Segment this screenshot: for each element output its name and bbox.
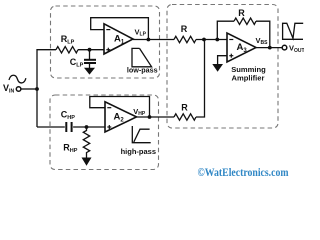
wire R up to summing node xyxy=(196,40,205,118)
resistor R (LP to summing) xyxy=(174,36,196,42)
low-pass response icon xyxy=(132,48,152,66)
high-pass response icon xyxy=(132,126,150,143)
op-amp A3 xyxy=(227,33,256,62)
wire HP input xyxy=(37,126,65,128)
svg-text:R: R xyxy=(238,8,245,18)
band-stop response icon xyxy=(283,23,304,39)
resistor RHP xyxy=(83,127,89,158)
wire CHP to op-amp xyxy=(73,126,105,128)
resistor R (HP to summing) xyxy=(174,114,196,120)
wire CLP drop xyxy=(89,50,91,59)
wire input trunk with LP branch xyxy=(37,50,56,127)
wire A2 feedback loop xyxy=(90,97,150,118)
wire A2 output xyxy=(137,116,175,118)
node A1 output xyxy=(147,38,151,42)
op-amp A2 xyxy=(105,102,137,132)
node VIN junction xyxy=(35,87,39,91)
svg-text:R: R xyxy=(181,102,188,112)
svg-text:low-pass: low-pass xyxy=(127,66,158,75)
capacitor CHP xyxy=(66,122,71,132)
output terminal circle xyxy=(282,45,287,50)
wire VIN stub xyxy=(21,88,37,90)
wire A3 feedback xyxy=(217,21,234,39)
high-pass filter dashed box xyxy=(50,95,159,170)
wire A1 feedback loop xyxy=(91,18,149,40)
op-amp A1 xyxy=(104,24,133,54)
svg-text:©WatElectronics.com: ©WatElectronics.com xyxy=(198,165,289,179)
wire R to summing node xyxy=(196,39,227,41)
low-pass filter dashed box xyxy=(51,6,160,78)
svg-text:R: R xyxy=(181,24,188,34)
AC source sine symbol xyxy=(9,75,26,83)
wire A3 plus input to ground xyxy=(218,56,227,64)
summing amplifier dashed box xyxy=(167,5,278,129)
ground arrow below RHP xyxy=(82,158,92,166)
node feedback tap xyxy=(215,38,219,42)
wire A3 output xyxy=(256,47,282,49)
wire RLP to op-amp xyxy=(78,49,104,51)
svg-text:high-pass: high-pass xyxy=(121,147,156,156)
node feedback-output junction xyxy=(268,46,272,50)
node A2 output xyxy=(148,115,152,119)
node summing xyxy=(202,38,206,42)
resistor R (feedback) xyxy=(234,18,256,24)
wire CLP to ground xyxy=(89,63,91,68)
ground arrow below CLP xyxy=(84,68,95,75)
wire feedback to output xyxy=(256,21,270,47)
node HP junction xyxy=(85,125,89,129)
input terminal circle xyxy=(16,87,21,92)
node LP junction xyxy=(88,48,92,52)
svg-text:Amplifier: Amplifier xyxy=(232,73,265,82)
ground arrow at A3 xyxy=(212,64,223,72)
wire A1 output xyxy=(133,39,174,41)
capacitor CLP xyxy=(84,60,96,63)
resistor RLP xyxy=(56,47,78,53)
